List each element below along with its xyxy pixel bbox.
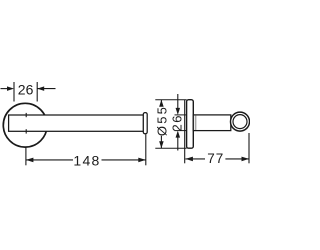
dim 148: left arrow [26, 158, 34, 163]
dim 26 top: left tail [1, 88, 8, 90]
side view end inner circle [233, 115, 247, 129]
svg-text:26: 26 [18, 81, 34, 97]
dim O55: bottom arrow [159, 141, 164, 148]
dim O55: dimension line top segment [160, 100, 162, 106]
center tick bottom [25, 129, 27, 133]
svg-text:148: 148 [73, 153, 100, 169]
side view plate [187, 100, 194, 149]
dim 77: right arrow [242, 157, 250, 162]
svg-text:Ø55: Ø55 [154, 105, 169, 136]
side view stem [193, 115, 231, 131]
dim 26 side: extension stub bottom [175, 130, 187, 132]
dim 26 side: top arrow [176, 108, 181, 115]
dim 26 top: extension line left [13, 82, 15, 102]
dim 26 side: extension stub top [175, 114, 187, 116]
front view rose circle [3, 103, 47, 147]
dim 148: extension line left [25, 148, 27, 166]
svg-text:26: 26 [170, 114, 185, 131]
dim 77: right extension line [248, 133, 250, 163]
dim 148: right arrow [138, 158, 146, 163]
dim 26 side: bottom tail [177, 138, 179, 151]
dim 77: left arrow [185, 157, 193, 162]
side view wall line [184, 100, 186, 164]
dim 148: line right segment [102, 159, 146, 161]
dim 26 side: top tail [177, 94, 179, 108]
dim 77: line right segment [225, 158, 249, 160]
side view stem fillet [195, 116, 197, 130]
side view end outer circle [231, 112, 250, 131]
dim 26 top: right tail [37, 88, 55, 90]
dim O55: top arrow [159, 100, 164, 107]
center tick top [25, 113, 27, 117]
dim O55: extension line top [155, 99, 186, 101]
dim 26 top: extension line right [36, 82, 38, 102]
dim 148: extension line right [145, 134, 147, 165]
dim 26 side: bottom arrow [176, 131, 181, 138]
dim O55: extension line bottom [155, 147, 186, 149]
dim 77: line left segment [185, 158, 205, 160]
svg-text:77: 77 [207, 151, 224, 166]
dim 148: line left segment [26, 159, 73, 161]
dim 26 top: right arrow [37, 86, 44, 91]
dim O55: dimension line bottom segment [160, 136, 162, 148]
front view roll bar [9, 115, 144, 131]
dim 26 top: left arrow [7, 86, 14, 91]
front view bar end cap [143, 113, 147, 134]
